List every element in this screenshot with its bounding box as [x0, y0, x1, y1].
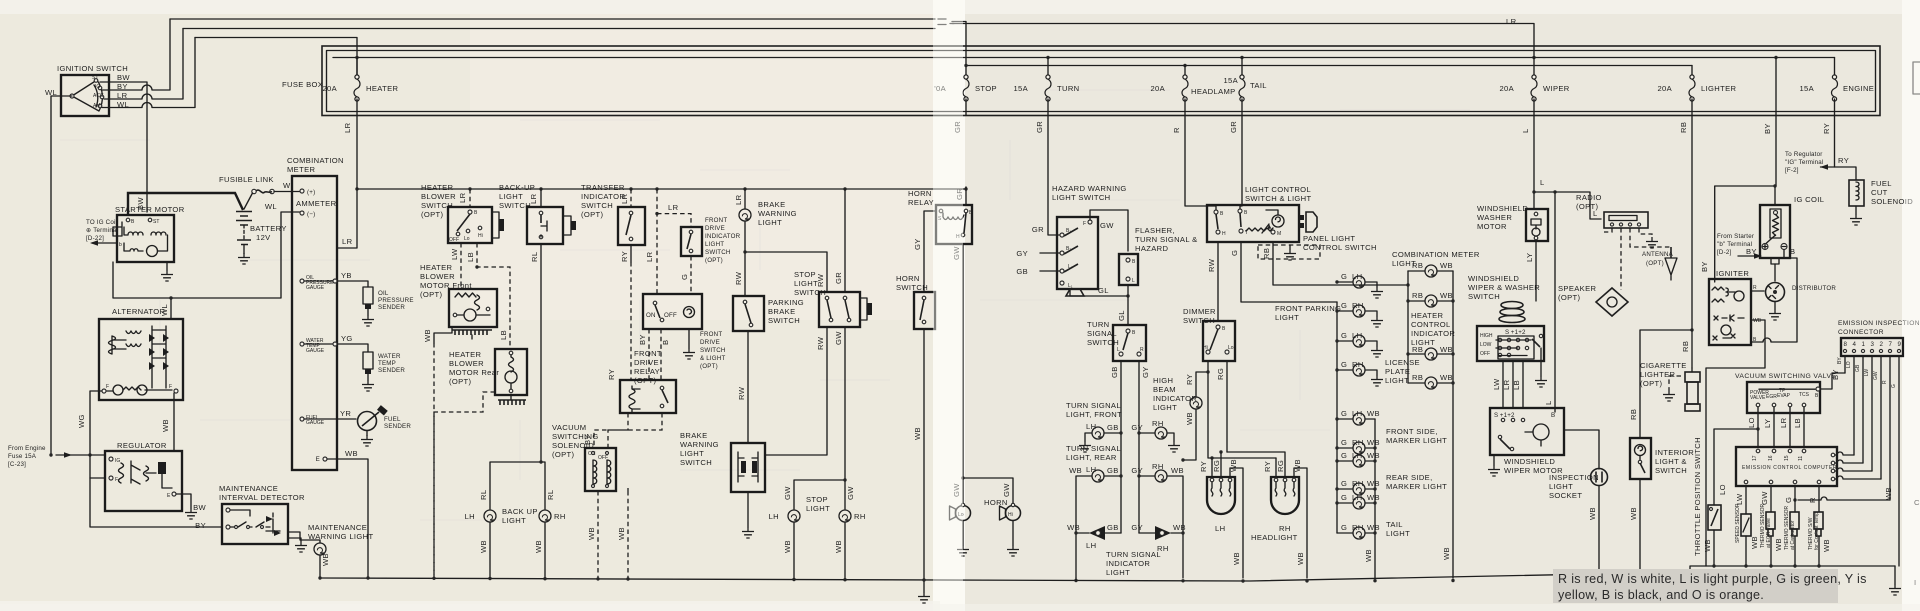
svg-text:GR: GR — [1229, 121, 1238, 133]
svg-text:LIGHT, REAR: LIGHT, REAR — [1066, 453, 1117, 462]
windshield wiper and washer switch — [1468, 274, 1544, 361]
wire WB front motor — [434, 327, 452, 343]
fuse 15A ENGINE — [1799, 58, 1874, 116]
svg-text:(OPT): (OPT) — [705, 257, 723, 264]
svg-text:WB: WB — [1229, 459, 1238, 472]
svg-text:HEADLIGHT: HEADLIGHT — [1251, 533, 1298, 542]
svg-text:BY: BY — [1837, 357, 1843, 364]
svg-text:9: 9 — [1898, 341, 1902, 348]
svg-text:STARTER MOTOR: STARTER MOTOR — [115, 205, 185, 214]
fuel gauge — [300, 409, 356, 426]
wire BY drop in fusebox — [1775, 58, 1777, 116]
svg-text:CIGARETTE: CIGARETTE — [1640, 361, 1687, 370]
svg-text:FLASHER,: FLASHER, — [1135, 226, 1175, 235]
wire BY branch to igniter — [1715, 186, 1775, 282]
svg-text:INTERIOR: INTERIOR — [1655, 448, 1694, 457]
svg-text:SWITCH: SWITCH — [1655, 466, 1687, 475]
rear side marker LH — [1335, 451, 1447, 491]
svg-text:LIGHTER: LIGHTER — [1701, 84, 1737, 93]
svg-text:G: G — [1341, 479, 1347, 488]
next page cut mark — [1913, 62, 1920, 94]
label from starter — [1717, 233, 1754, 256]
svg-text:COMBINATION: COMBINATION — [287, 156, 344, 165]
wire RY headlight bus — [1208, 372, 1276, 458]
svg-text:WARNING: WARNING — [680, 440, 719, 449]
wire WB stop lamps — [793, 523, 795, 579]
svg-text:RB: RB — [1412, 373, 1423, 382]
svg-text:TAIL: TAIL — [1386, 520, 1403, 529]
svg-text:S +1+2: S +1+2 — [1505, 329, 1526, 336]
svg-text:20A: 20A — [1499, 84, 1514, 93]
turn signal light front LH — [1066, 401, 1123, 452]
svg-text:17: 17 — [1752, 455, 1758, 461]
svg-text:7: 7 — [1889, 341, 1893, 348]
svg-text:WB: WB — [1367, 479, 1380, 488]
svg-text:INDICATOR: INDICATOR — [581, 192, 625, 201]
wire ignition AM WL with hop — [102, 38, 195, 108]
svg-text:LO: LO — [1718, 484, 1727, 495]
heater control indicator light lamp2 — [1408, 373, 1453, 389]
wire starter ground — [166, 262, 168, 270]
wire WB inspection socket — [1598, 486, 1600, 579]
wire fuse bus B — [966, 65, 1692, 67]
high beam indicator light — [1153, 376, 1202, 412]
wire coil tab to distributor — [1774, 264, 1776, 281]
water temp sender — [362, 352, 405, 391]
svg-text:L: L — [1521, 128, 1530, 133]
wire wiper motor ground — [1493, 455, 1495, 465]
wire WB high beam — [1183, 410, 1196, 461]
svg-text:WB: WB — [1750, 536, 1759, 549]
stop lights — [769, 495, 866, 522]
svg-text:GB: GB — [1110, 366, 1119, 378]
wire RW stop switch link — [765, 327, 827, 455]
svg-text:WB: WB — [1232, 552, 1241, 565]
turn signal light front RH — [1131, 419, 1180, 452]
svg-text:SPEED SENSOR: SPEED SENSOR — [1735, 503, 1741, 543]
wire LW dashed to front motor — [460, 243, 462, 289]
horn low — [950, 503, 971, 520]
svg-text:WB: WB — [1067, 523, 1080, 532]
svg-text:CONTROL: CONTROL — [1411, 320, 1451, 329]
svg-text:PLATE: PLATE — [1385, 367, 1410, 376]
fuse 20A WIPER — [1499, 58, 1569, 116]
wire GW hazard to flasher — [1090, 210, 1128, 251]
svg-text:WG: WG — [77, 414, 86, 428]
svg-text:Hi: Hi — [1203, 345, 1208, 351]
svg-text:WB: WB — [1171, 466, 1184, 475]
svg-text:FUSIBLE LINK: FUSIBLE LINK — [219, 175, 274, 184]
svg-text:15: 15 — [1784, 455, 1790, 461]
svg-text:WB: WB — [161, 419, 170, 432]
svg-text:BY: BY — [195, 521, 206, 530]
svg-text:MAINTENANCE: MAINTENANCE — [219, 484, 278, 493]
ignition switch — [57, 64, 128, 116]
fuse 20A HEATER — [322, 58, 398, 116]
svg-text:LR: LR — [117, 91, 128, 100]
svg-text:SWITCH: SWITCH — [768, 316, 800, 325]
svg-text:[D-2]: [D-2] — [1717, 249, 1731, 256]
fuel cut solenoid — [1849, 179, 1913, 225]
svg-text:Hi: Hi — [1008, 512, 1013, 518]
svg-text:GW: GW — [1100, 221, 1114, 230]
page gutter overlay — [933, 0, 963, 611]
svg-text:WB: WB — [1629, 507, 1638, 520]
svg-text:LR: LR — [668, 203, 679, 212]
svg-text:LOW: LOW — [1480, 342, 1492, 348]
svg-text:IGNITER: IGNITER — [1716, 269, 1749, 278]
svg-text:LO: LO — [1747, 417, 1756, 428]
svg-text:WB: WB — [1440, 291, 1453, 300]
svg-text:SWITCH: SWITCH — [705, 249, 731, 256]
svg-text:RB: RB — [1679, 122, 1688, 133]
wire fuse bus A — [333, 57, 1835, 59]
wire lamp WB to bus — [319, 555, 321, 578]
svg-text:HAZARD WARNING: HAZARD WARNING — [1052, 184, 1127, 193]
turn signal indicator RH — [1106, 523, 1186, 577]
svg-text:WARNING: WARNING — [758, 209, 797, 218]
svg-text:SWITCH: SWITCH — [700, 347, 726, 354]
svg-text:LR: LR — [734, 194, 743, 205]
svg-text:BY: BY — [117, 82, 128, 91]
svg-text:16: 16 — [1768, 455, 1774, 461]
svg-text:L: L — [1540, 178, 1545, 187]
svg-text:LH: LH — [769, 512, 779, 521]
svg-text:LIGHT: LIGHT — [1385, 376, 1409, 385]
svg-text:TURN: TURN — [1057, 84, 1080, 93]
svg-text:ACC: ACC — [93, 93, 104, 99]
wire top bus right page to STOP drop — [952, 22, 966, 76]
svg-text:From Starter: From Starter — [1717, 233, 1754, 240]
svg-text:RW: RW — [1207, 258, 1216, 272]
svg-text:G: G — [1341, 409, 1347, 418]
svg-text:LIGHT: LIGHT — [1386, 529, 1410, 538]
svg-text:MOTOR: MOTOR — [1477, 222, 1507, 231]
svg-text:GY: GY — [1131, 466, 1143, 475]
svg-text:1: 1 — [1862, 341, 1866, 348]
svg-text:LR: LR — [1502, 379, 1511, 390]
front side marker LH — [1335, 409, 1447, 445]
fuse 20A HEADLAMP — [1150, 66, 1235, 116]
svg-text:BEAM: BEAM — [1153, 385, 1176, 394]
svg-text:8: 8 — [1844, 341, 1848, 348]
wire BY to VSV B — [1820, 373, 1845, 389]
svg-text:YB: YB — [341, 271, 352, 280]
front side marker RH — [1335, 438, 1380, 454]
svg-text:[D-22]: [D-22] — [86, 235, 104, 242]
svg-text:OFF: OFF — [449, 237, 459, 243]
svg-text:WB: WB — [1884, 487, 1893, 500]
label panel light control switch — [1303, 234, 1377, 252]
labels ignition wires — [117, 73, 130, 109]
svg-text:TO IG Coil: TO IG Coil — [86, 219, 117, 226]
svg-text:LB: LB — [499, 330, 508, 340]
wire RG dimmer low — [1226, 361, 1228, 452]
wire WL from ignition — [51, 96, 72, 455]
svg-text:HIGH: HIGH — [1153, 376, 1173, 385]
svg-text:RY: RY — [1199, 461, 1208, 472]
svg-text:FRONT: FRONT — [705, 217, 727, 224]
front drive relay — [620, 349, 676, 413]
svg-text:GAUGE: GAUGE — [306, 420, 325, 426]
svg-text:COMBINATION METER: COMBINATION METER — [1392, 250, 1480, 259]
svg-text:WB: WB — [1296, 552, 1305, 565]
wire battery cable to starter B — [128, 193, 243, 215]
svg-text:RY: RY — [1263, 461, 1272, 472]
svg-text:HORN: HORN — [896, 274, 920, 283]
wire WB alternator to regulator — [173, 393, 175, 451]
svg-text:PARKING: PARKING — [768, 298, 804, 307]
wire wiper switch to motor — [1502, 361, 1504, 408]
wire top bus BY — [170, 18, 935, 20]
fuse box outer border — [322, 46, 1880, 116]
svg-text:VACUUM SWITCHING VALVE: VACUUM SWITCHING VALVE — [1735, 373, 1836, 380]
wire radio ground dashed — [1639, 228, 1652, 237]
svg-text:15A: 15A — [1799, 84, 1814, 93]
wire ignition IG BY with hop — [102, 19, 170, 90]
svg-text:"IG" Terminal: "IG" Terminal — [1785, 159, 1824, 166]
svg-text:WB: WB — [345, 449, 358, 458]
svg-text:OIL: OIL — [378, 290, 389, 297]
labels under fuse box — [343, 121, 1831, 134]
svg-text:B: B — [661, 340, 670, 345]
svg-text:LY: LY — [1525, 253, 1534, 262]
oil pressure gauge — [300, 271, 368, 291]
rear side marker RH — [1335, 479, 1380, 495]
svg-text:LIGHT: LIGHT — [680, 449, 704, 458]
svg-text:FUEL: FUEL — [1871, 179, 1892, 188]
svg-text:LIGHT: LIGHT — [1153, 403, 1177, 412]
svg-text:Lo: Lo — [464, 236, 470, 242]
svg-text:LW: LW — [450, 248, 459, 260]
IG coil — [1760, 195, 1824, 264]
heater control indicator light lamp1 — [1406, 311, 1455, 360]
battery — [236, 212, 287, 265]
water temp gauge — [300, 334, 368, 354]
svg-text:GB: GB — [1107, 466, 1119, 475]
svg-text:WB: WB — [1440, 345, 1453, 354]
wire WB solenoid dashed to bus — [597, 491, 599, 578]
svg-text:LW: LW — [1864, 369, 1870, 376]
speaker — [1558, 284, 1628, 316]
svg-text:F: F — [1083, 221, 1086, 227]
wire RL split to lamps — [490, 462, 541, 509]
svg-text:HEATER: HEATER — [421, 183, 454, 192]
svg-text:DRIVE: DRIVE — [634, 358, 659, 367]
svg-text:LR: LR — [342, 237, 353, 246]
svg-text:RG: RG — [1216, 368, 1225, 380]
svg-text:TURN SIGNAL: TURN SIGNAL — [1106, 550, 1161, 559]
svg-text:BRAKE: BRAKE — [680, 431, 708, 440]
svg-text:VALVE: VALVE — [1750, 395, 1766, 401]
svg-text:RB: RB — [1412, 291, 1423, 300]
svg-text:HORN: HORN — [984, 498, 1008, 507]
svg-text:BLOWER: BLOWER — [421, 192, 456, 201]
svg-text:GW: GW — [1873, 371, 1879, 380]
svg-text:G: G — [1784, 497, 1793, 503]
svg-text:BLOWER: BLOWER — [420, 272, 455, 281]
svg-text:GR: GR — [1035, 121, 1044, 133]
svg-text:LIGHT: LIGHT — [758, 218, 782, 227]
combination meter light lamp1 — [1406, 261, 1453, 287]
wire WG alternator — [90, 391, 102, 455]
svg-text:GB: GB — [1107, 523, 1119, 532]
wire front drive switch ground — [688, 329, 690, 348]
svg-text:REGULATOR: REGULATOR — [117, 441, 167, 450]
wire top bus LR left page — [183, 28, 935, 30]
svg-text:L: L — [1117, 347, 1120, 353]
vacuum switching solenoid — [552, 423, 616, 491]
wire RY dimmer high — [1196, 361, 1208, 397]
svg-text:WIPER: WIPER — [1543, 84, 1570, 93]
oil pressure sender — [362, 287, 414, 326]
svg-text:WB: WB — [587, 527, 596, 540]
svg-text:LW: LW — [1492, 378, 1501, 390]
wire top bus WL to fusebox — [195, 38, 357, 76]
node bus junction dots — [318, 564, 1820, 582]
svg-text:20A: 20A — [1657, 84, 1672, 93]
svg-text:LR: LR — [529, 193, 538, 204]
emission control computer — [1736, 447, 1837, 486]
svg-text:EMISSION CONTROL COMPUTER: EMISSION CONTROL COMPUTER — [1742, 465, 1837, 471]
headlight RH — [1251, 459, 1302, 542]
svg-text:HIGH: HIGH — [1480, 333, 1493, 339]
svg-text:FRONT: FRONT — [634, 349, 662, 358]
wire GW stop lamps — [794, 327, 845, 509]
turn signal indicator LH — [1067, 523, 1121, 550]
wire GR turn fuse to hazard — [1048, 116, 1060, 236]
igniter — [1709, 269, 1762, 345]
svg-text:RB: RB — [1412, 345, 1423, 354]
svg-text:MAINTENANCE: MAINTENANCE — [308, 523, 367, 532]
wire RY transfer to relay — [630, 245, 632, 262]
svg-text:SWITCH: SWITCH — [1468, 292, 1500, 301]
svg-text:SWITCH: SWITCH — [896, 283, 928, 292]
combination meter — [265, 156, 344, 470]
svg-text:YG: YG — [341, 334, 353, 343]
svg-text:FRONT PARKING: FRONT PARKING — [1275, 304, 1341, 313]
svg-text:SENDER: SENDER — [378, 304, 405, 311]
wire GW horns — [962, 244, 964, 505]
svg-text:WB: WB — [1774, 538, 1783, 551]
svg-text:DIMMER: DIMMER — [1183, 307, 1216, 316]
svg-text:b: b — [119, 242, 122, 248]
svg-text:(OPT): (OPT) — [1640, 379, 1663, 388]
turn signal light rear RH — [1131, 462, 1184, 578]
svg-text:WB: WB — [1440, 261, 1453, 270]
wire GL flasher to turn switch — [1127, 285, 1129, 325]
svg-text:(OPT): (OPT) — [421, 210, 444, 219]
inspection light socket — [1549, 469, 1608, 501]
svg-text:LH: LH — [1086, 465, 1096, 474]
svg-text:WATER: WATER — [378, 353, 401, 360]
svg-text:WB: WB — [783, 540, 792, 553]
svg-text:LH: LH — [1086, 422, 1096, 431]
wire WB interior light — [1639, 479, 1641, 578]
combination meter light column — [1392, 250, 1480, 383]
wire GY horn switch to relay — [924, 211, 936, 292]
svg-text:HEATER: HEATER — [366, 84, 399, 93]
svg-text:R: R — [1808, 497, 1817, 503]
wire horn switch ground below bus — [923, 580, 925, 592]
wire BY B to relay — [649, 329, 661, 380]
wire GB LH column — [1120, 361, 1122, 533]
alternator — [99, 307, 183, 400]
svg-text:R: R — [1882, 380, 1888, 384]
svg-text:BACK UP: BACK UP — [502, 507, 538, 516]
wire LY washer to switch — [1535, 241, 1537, 301]
svg-text:(OPT): (OPT) — [552, 450, 575, 459]
wire lighter ground — [1669, 376, 1681, 390]
svg-text:LR: LR — [1506, 17, 1517, 26]
svg-text:BLOWER: BLOWER — [449, 359, 484, 368]
svg-text:TCS: TCS — [1799, 392, 1810, 398]
svg-text:G: G — [1341, 438, 1347, 447]
svg-text:WL: WL — [265, 202, 277, 211]
wire RB lighter drop — [1691, 116, 1693, 369]
svg-text:WB: WB — [479, 540, 488, 553]
svg-text:GY: GY — [913, 238, 922, 250]
svg-text:LICENSE: LICENSE — [1385, 358, 1420, 367]
wire igniter R — [1751, 290, 1764, 292]
wire RB to interior light — [1640, 330, 1692, 438]
svg-text:OFF: OFF — [1480, 351, 1490, 357]
svg-text:GB: GB — [1107, 423, 1119, 432]
wire LR into meter — [337, 189, 357, 248]
svg-text:15A: 15A — [1013, 84, 1028, 93]
svg-text:YR: YR — [340, 409, 351, 418]
svg-text:RG: RG — [1276, 460, 1285, 472]
svg-text:RB: RB — [1681, 341, 1690, 352]
wire detector ground — [288, 538, 301, 541]
svg-text:VACUUM: VACUUM — [552, 423, 586, 432]
svg-text:TRANSFER: TRANSFER — [581, 183, 625, 192]
svg-text:SWITCH & LIGHT: SWITCH & LIGHT — [1245, 194, 1312, 203]
wire horn grounds — [962, 521, 964, 546]
fuel sender — [358, 405, 412, 446]
svg-text:IG: IG — [95, 84, 100, 90]
svg-text:METER: METER — [287, 165, 315, 174]
label TO IG Coil Terminal — [86, 219, 118, 242]
svg-text:F: F — [169, 384, 172, 390]
wire arrow to IG coil — [92, 242, 117, 244]
svg-text:TEMP: TEMP — [378, 360, 396, 367]
windshield washer motor — [1477, 204, 1548, 241]
wire RB light control M — [1273, 242, 1408, 285]
svg-text:12V: 12V — [256, 233, 271, 242]
svg-text:GB: GB — [1016, 267, 1028, 276]
svg-text:ALTERNATOR: ALTERNATOR — [112, 307, 165, 316]
svg-text:SENDER: SENDER — [378, 367, 405, 374]
svg-text:ENGINE: ENGINE — [1843, 84, 1874, 93]
wire top bus LR right page — [952, 24, 1534, 58]
transfer indicator switch — [581, 183, 645, 245]
svg-text:WB: WB — [1440, 373, 1453, 382]
svg-text:BY: BY — [1763, 123, 1772, 134]
svg-text:HEATER: HEATER — [449, 350, 482, 359]
svg-text:S +1+2: S +1+2 — [1494, 412, 1515, 419]
back-up lights — [465, 507, 566, 525]
svg-text:RB: RB — [1629, 409, 1638, 420]
svg-text:B: B — [1790, 247, 1795, 256]
svg-text:WINDSHIELD: WINDSHIELD — [1504, 457, 1555, 466]
svg-text:GW: GW — [1002, 483, 1011, 497]
wire LR accessory bus — [357, 188, 966, 190]
svg-text:WINDSHIELD: WINDSHIELD — [1477, 204, 1528, 213]
tail light LH — [1335, 493, 1410, 538]
svg-text:BACK-UP: BACK-UP — [499, 183, 535, 192]
svg-text:LH: LH — [1086, 541, 1096, 550]
